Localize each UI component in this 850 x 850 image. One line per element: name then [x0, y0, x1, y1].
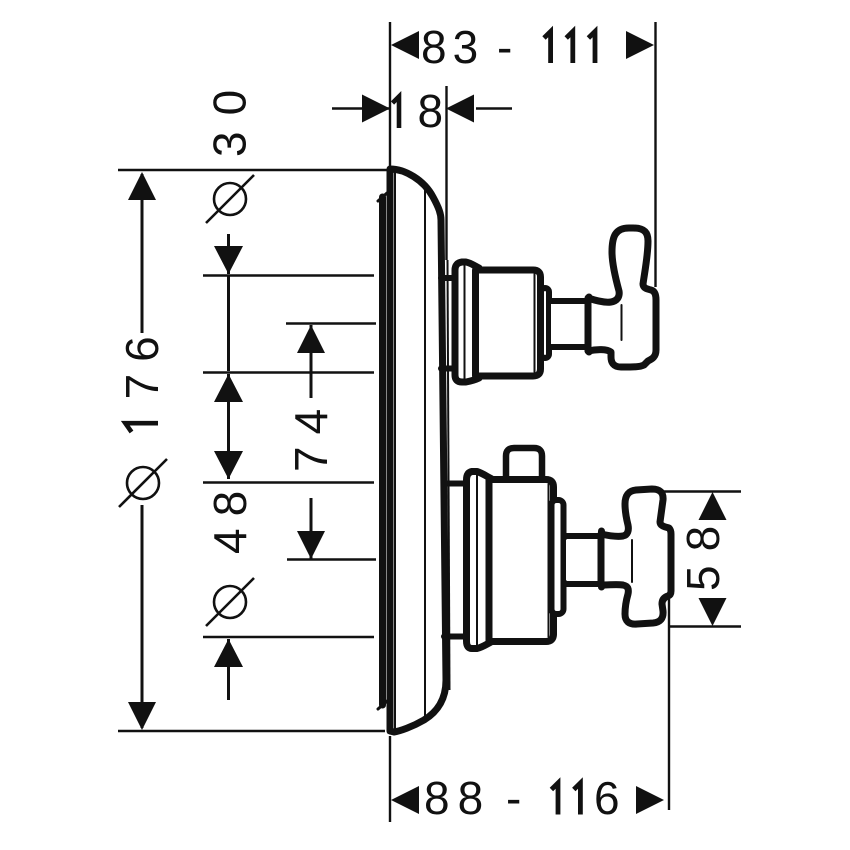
svg-text:58: 58 — [677, 512, 729, 591]
svg-text:30: 30 — [204, 74, 256, 157]
svg-text:-: - — [497, 21, 512, 73]
svg-text:76: 76 — [116, 324, 168, 399]
svg-text:-: - — [506, 772, 521, 824]
svg-text:88: 88 — [424, 772, 491, 824]
svg-text:8: 8 — [418, 85, 444, 137]
svg-text:74: 74 — [285, 397, 337, 472]
svg-text:83: 83 — [421, 21, 484, 73]
svg-text:6: 6 — [594, 772, 620, 824]
svg-text:48: 48 — [204, 479, 256, 554]
